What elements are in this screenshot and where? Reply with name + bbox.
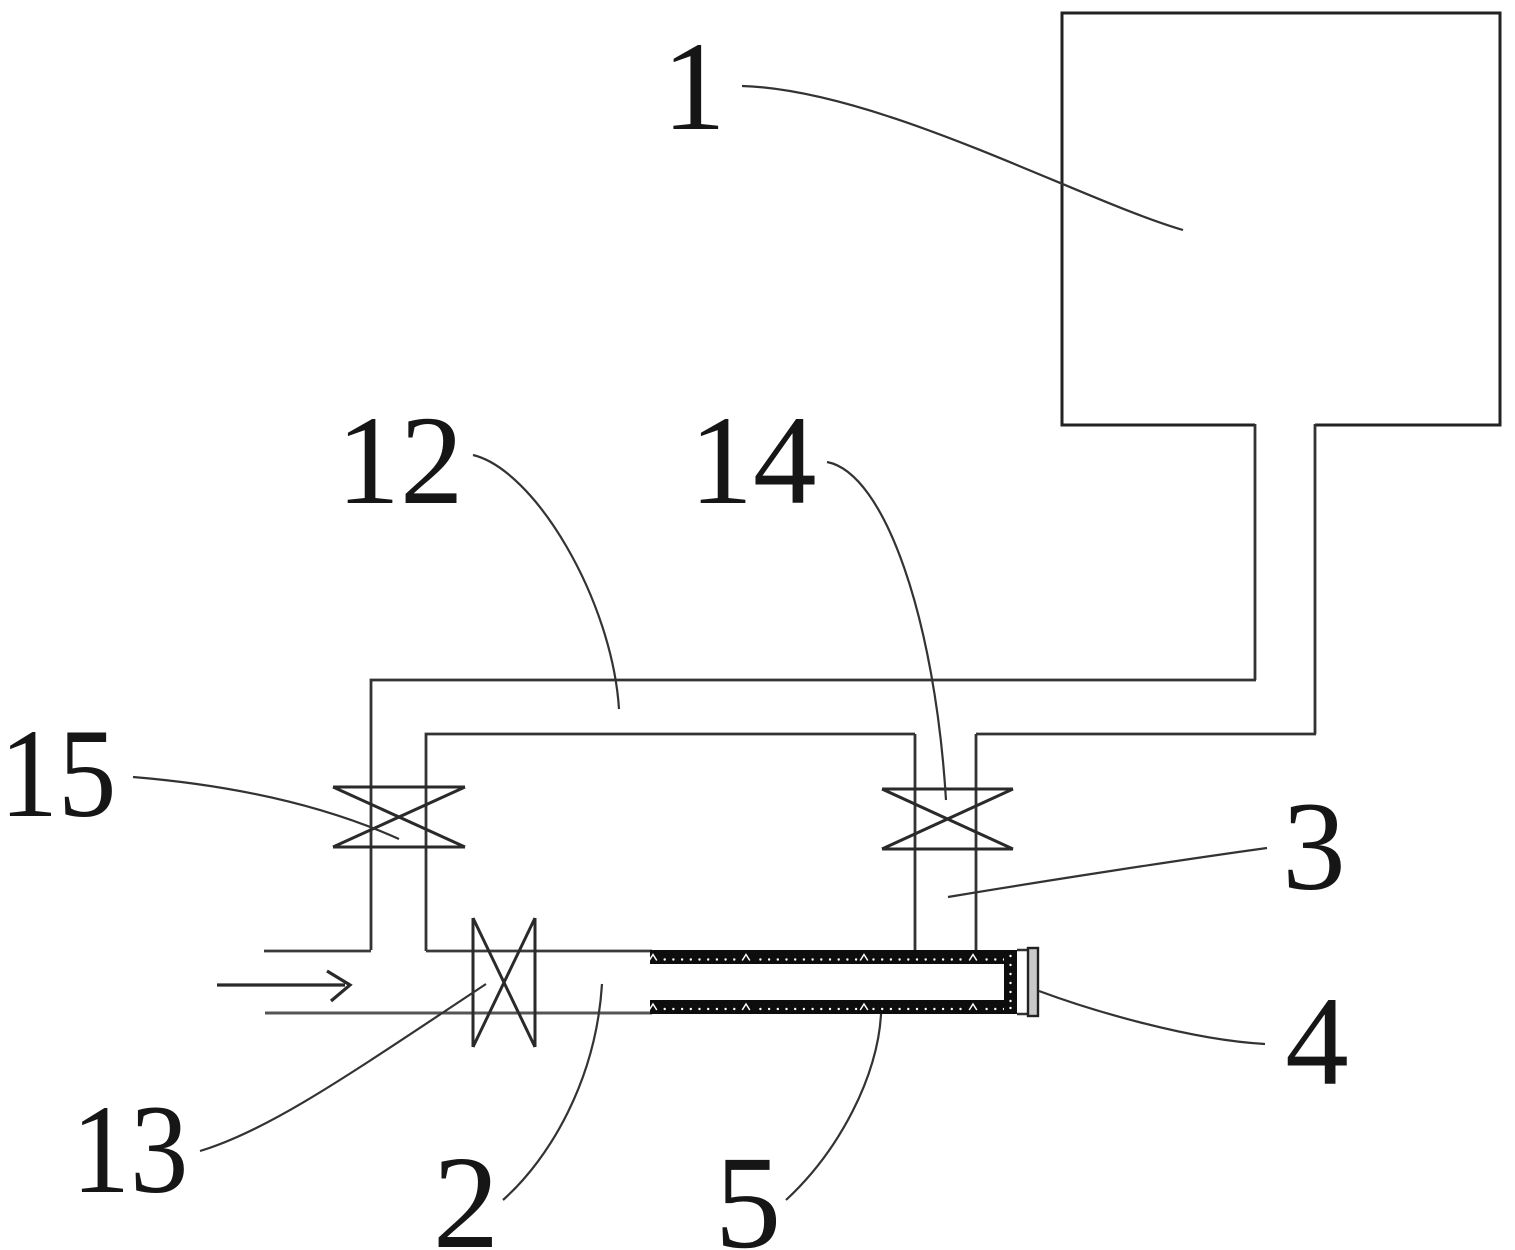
leader 2 — [503, 984, 602, 1200]
pipe 3 inner wall — [914, 734, 917, 950]
svg-text:1: 1 — [662, 17, 726, 157]
valve 13 (bottom) — [473, 918, 535, 1047]
valve 15 (left) — [333, 787, 465, 847]
tube 5 end collar — [1017, 950, 1028, 1014]
leader 1 — [742, 86, 1183, 230]
svg-text:12: 12 — [337, 391, 464, 531]
tube 5 top hatched wall — [649, 950, 1017, 964]
leader 13 — [200, 984, 486, 1151]
svg-text:13: 13 — [72, 1080, 189, 1221]
pipe from tank right wall — [1314, 424, 1317, 734]
svg-text:14: 14 — [690, 391, 817, 531]
pipe 3 outer wall — [975, 734, 978, 950]
tube 5 right hatched end — [1004, 950, 1017, 1014]
inlet pipe top wall left segment — [264, 950, 371, 953]
leader 14 — [827, 462, 946, 800]
leader 3 — [948, 848, 1267, 897]
flow arrow — [217, 971, 350, 1001]
svg-text:5: 5 — [715, 1128, 782, 1250]
leader 5 — [786, 1014, 881, 1200]
cap 4 — [1028, 948, 1038, 1016]
svg-text:3: 3 — [1282, 777, 1346, 917]
pipe from tank left wall — [1254, 424, 1257, 680]
leader 15 — [133, 777, 399, 839]
svg-text:15: 15 — [0, 704, 116, 845]
inlet pipe bottom wall — [265, 1012, 652, 1015]
inlet pipe top wall right segment — [426, 950, 652, 953]
tank 1 outline — [1062, 13, 1500, 425]
pipe inner top run right — [976, 733, 1316, 736]
pipe inner top run left — [426, 734, 915, 951]
leader 4 — [1039, 991, 1265, 1044]
valve 14 (right) — [882, 789, 1013, 849]
tube 5 bottom hatched wall — [649, 1000, 1017, 1014]
leader 12 — [473, 455, 619, 709]
svg-text:4: 4 — [1285, 972, 1349, 1112]
svg-text:2: 2 — [433, 1128, 500, 1250]
pipe outer top run — [371, 680, 1256, 950]
